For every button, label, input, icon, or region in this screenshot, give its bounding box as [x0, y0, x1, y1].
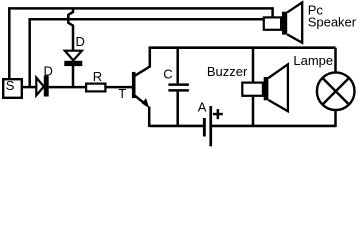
- svg-text:D: D: [44, 63, 53, 78]
- svg-text:D: D: [76, 34, 85, 49]
- svg-text:R: R: [93, 69, 102, 84]
- svg-text:Speaker: Speaker: [308, 14, 357, 29]
- svg-text:Lampe: Lampe: [293, 53, 333, 68]
- svg-text:S: S: [6, 78, 15, 93]
- svg-text:T: T: [118, 86, 126, 101]
- svg-text:Buzzer: Buzzer: [207, 64, 248, 79]
- svg-text:A: A: [198, 99, 207, 114]
- svg-text:C: C: [163, 67, 172, 82]
